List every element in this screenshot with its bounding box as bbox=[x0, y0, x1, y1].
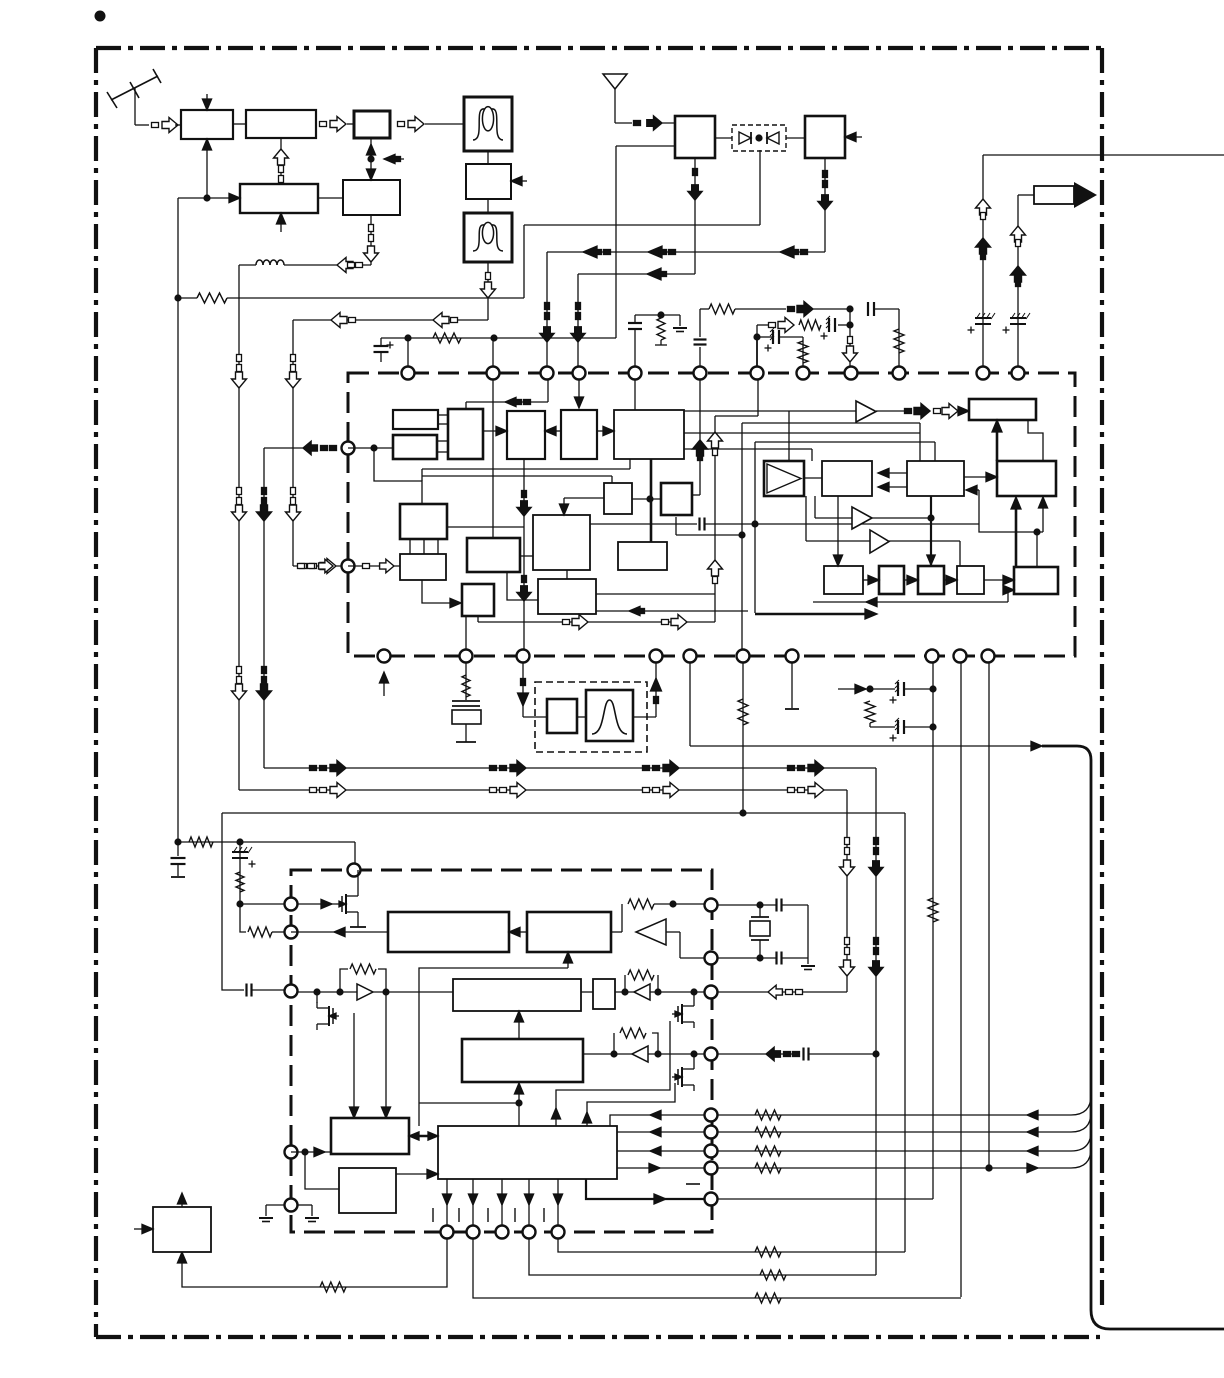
wire bbox=[239, 264, 256, 266]
wire bbox=[577, 716, 586, 718]
amp C bbox=[870, 530, 889, 553]
filter CF bbox=[586, 690, 633, 741]
block C1b bbox=[393, 435, 437, 459]
row y1151 from bus bbox=[718, 1131, 1091, 1156]
switch tick x473 bbox=[458, 1208, 460, 1222]
block E7 PS bbox=[339, 1168, 396, 1213]
pin left y904 bbox=[285, 898, 298, 911]
branch x240 bbox=[232, 842, 256, 908]
wire x419 bbox=[419, 952, 573, 1126]
marker bbox=[490, 766, 497, 771]
osc inverter amp bbox=[611, 899, 704, 958]
wire x961 column bbox=[960, 663, 962, 1297]
wire pin792 down bbox=[785, 663, 799, 709]
pin bottom x792 bbox=[786, 650, 799, 663]
wire x983 down bbox=[982, 155, 984, 366]
row y1298 bbox=[473, 1239, 961, 1303]
bold arrow D5-D1 bbox=[992, 420, 1002, 461]
signal marker left bbox=[331, 313, 347, 328]
signal marker left bbox=[337, 258, 363, 273]
wire x933 column bbox=[928, 663, 938, 1199]
marker bbox=[310, 766, 317, 771]
block D4 bbox=[907, 461, 964, 496]
marker bbox=[643, 766, 650, 771]
wire y524 cap line bbox=[590, 518, 979, 531]
wire pin743 down bbox=[738, 663, 748, 817]
marker bbox=[232, 684, 247, 700]
wire node374 to C8 bbox=[374, 448, 422, 504]
wire pin757 bbox=[756, 337, 758, 366]
signal marker into RF amp bbox=[152, 123, 159, 128]
pin top x1018 bbox=[1012, 367, 1025, 380]
bold line y614 bbox=[755, 609, 877, 619]
MOSFET Q2 bbox=[317, 992, 339, 1030]
branch to pin291-932 bbox=[240, 904, 284, 937]
wire D4 right loop bbox=[966, 485, 1048, 567]
pin top x983 bbox=[977, 367, 990, 380]
wire C5 to ampA bbox=[684, 410, 856, 412]
net x933 caps bbox=[838, 680, 937, 742]
block AM-FE bbox=[805, 116, 845, 158]
signal marker bbox=[320, 122, 327, 127]
wire x755 column bbox=[751, 442, 935, 613]
arrow E1 to pin932 bbox=[291, 927, 388, 936]
wires to E5 bbox=[349, 992, 390, 1118]
wire BPF2 down bbox=[487, 262, 489, 320]
wire C14 right bbox=[596, 593, 715, 595]
wires C1-C2 bbox=[437, 415, 448, 452]
pin right y992 bbox=[705, 986, 718, 999]
MOSFET Q4 bbox=[672, 1054, 694, 1091]
wire x355 to pin354 bbox=[354, 842, 356, 863]
diode D1 bbox=[739, 132, 751, 144]
arrows D4-D3 bbox=[878, 468, 907, 491]
wire x1018 down bbox=[1017, 195, 1019, 366]
arrow up from E6 bbox=[551, 1108, 560, 1119]
pin bottom x932 bbox=[926, 650, 939, 663]
pin bottom x529 bbox=[523, 1226, 536, 1239]
row y1115 from bus bbox=[718, 1095, 1091, 1120]
bus row y790 bbox=[239, 789, 847, 791]
amp A bbox=[856, 401, 876, 422]
wire pin448 to C1b bbox=[348, 444, 393, 451]
switch tick x558 bbox=[543, 1208, 545, 1222]
wire C8 right bbox=[447, 526, 524, 528]
block D10 bbox=[918, 566, 944, 594]
pin right y1054 bbox=[705, 1048, 718, 1061]
wires C8-C12 bbox=[410, 539, 438, 554]
block MIX bbox=[354, 111, 390, 138]
pin left y932 bbox=[285, 926, 298, 939]
wire FM-FE bottom bbox=[688, 158, 702, 274]
marker bbox=[788, 766, 795, 771]
drop x876 bbox=[869, 768, 883, 1275]
wire to pin291-904 bbox=[240, 903, 284, 905]
pin right y905 bbox=[705, 899, 718, 912]
arrow D10-D11 bbox=[944, 575, 957, 584]
wire D2 top bbox=[788, 411, 790, 461]
bullet list dot bbox=[95, 11, 106, 22]
block D5 bbox=[997, 461, 1056, 496]
output line x558 bbox=[553, 1179, 562, 1226]
cap C-381 bbox=[374, 338, 394, 362]
block E4b bbox=[593, 979, 615, 1009]
amp1 and feedback bbox=[298, 964, 453, 1000]
wire C6-C7 bbox=[632, 498, 661, 500]
wire ampB bbox=[815, 496, 935, 565]
pin top x700 bbox=[694, 367, 707, 380]
cap C-x178 end bbox=[171, 842, 186, 877]
antenna ANT1 bbox=[107, 69, 161, 125]
wire D2-D3 bbox=[804, 477, 822, 479]
wire to E7 bbox=[305, 1152, 339, 1189]
net y325 row bbox=[757, 309, 854, 340]
pin bottom x743 bbox=[737, 650, 750, 663]
bold arrow D12-D5 bbox=[1011, 497, 1021, 567]
filter BPF2 bbox=[464, 213, 512, 262]
pin bottom x988 bbox=[982, 650, 995, 663]
node on row1168 bbox=[985, 1164, 992, 1171]
ground at pin1205 bbox=[259, 1205, 319, 1222]
block C12 bbox=[400, 554, 446, 580]
wire pin566 to C12 bbox=[348, 559, 400, 573]
row pin1168 bbox=[617, 1163, 704, 1172]
wire bbox=[233, 123, 246, 125]
wire C9 to C14 bbox=[507, 572, 538, 600]
block C4 bbox=[561, 410, 597, 459]
marker open up bbox=[1011, 226, 1026, 247]
output line x502 bbox=[497, 1179, 506, 1226]
net pin700 top bbox=[694, 302, 905, 367]
wire y298 bbox=[178, 297, 197, 299]
double arrow E5-E6 bbox=[409, 1132, 438, 1140]
wire C3 to pin523 bbox=[517, 459, 531, 649]
pin bottom x960 bbox=[954, 650, 967, 663]
wire pin635 into C5 bbox=[634, 380, 636, 410]
arrow into C10 top bbox=[559, 498, 604, 515]
pin bottom x384 bbox=[378, 650, 391, 663]
cap network pin635 bbox=[628, 311, 687, 366]
wire into pin PLL-in bbox=[293, 565, 341, 567]
pin bottom x466 bbox=[460, 650, 473, 663]
pin right y1199 bbox=[705, 1193, 718, 1206]
wire bbox=[252, 989, 284, 991]
block SW-REG bbox=[153, 1207, 211, 1252]
ampA to D1 markers bbox=[876, 404, 969, 419]
MOSFET Q1 bbox=[298, 870, 366, 927]
row y1287 to block F bbox=[177, 1239, 447, 1292]
minus mark bbox=[686, 1183, 700, 1185]
row y1168 from bus bbox=[718, 1148, 1091, 1173]
outer dash-dot border bbox=[96, 48, 1102, 1337]
wire y225 bbox=[524, 224, 760, 226]
wire y469 row bbox=[422, 459, 630, 481]
net y337 row bbox=[753, 328, 808, 366]
marker x264 column bbox=[257, 448, 272, 768]
row y1275 bbox=[529, 1239, 876, 1280]
signal marker bbox=[634, 116, 663, 130]
switch tick x502 bbox=[487, 1208, 489, 1222]
pin bottom x690 bbox=[684, 650, 697, 663]
block C1a bbox=[393, 410, 438, 429]
pin bottom x656 bbox=[650, 650, 663, 663]
signal marker left bbox=[583, 246, 611, 258]
switch tick x529 bbox=[514, 1208, 516, 1222]
marker bbox=[310, 788, 317, 793]
block D3 bbox=[822, 461, 872, 496]
pin right y1168 bbox=[705, 1162, 718, 1175]
wire bbox=[425, 123, 464, 125]
wire pin493 bbox=[492, 338, 494, 538]
pin left y991 bbox=[285, 985, 298, 998]
arrow into IF-AMP right bbox=[511, 176, 527, 185]
bus curve right bbox=[1042, 746, 1224, 1329]
block E2 CLKGEN bbox=[527, 912, 611, 952]
block C8 bbox=[400, 504, 447, 539]
signal marker left bbox=[648, 246, 676, 258]
block FM-FE bbox=[675, 116, 715, 158]
pin right y1132 bbox=[705, 1126, 718, 1139]
wire y252 bbox=[547, 251, 825, 253]
block D11 bbox=[957, 566, 984, 594]
block D12 bbox=[1014, 567, 1058, 594]
wire C12-C13 bbox=[422, 580, 461, 608]
wire up to RF-AMP bbox=[202, 139, 211, 198]
amp B bbox=[852, 507, 872, 529]
block E4 DAC bbox=[453, 979, 581, 1011]
crystal X2 circuit bbox=[718, 899, 815, 970]
block E6 CONTROL bbox=[438, 1126, 617, 1179]
node A3-B2 bbox=[366, 138, 404, 180]
pin left y448 bbox=[342, 442, 355, 455]
wire y476 bbox=[422, 476, 612, 483]
block C3 bbox=[507, 411, 545, 459]
drop x847 bbox=[840, 790, 855, 992]
bus row y813 bbox=[222, 812, 905, 814]
block C11 bbox=[618, 542, 667, 570]
block C2 bbox=[448, 409, 483, 459]
wire C5-C11 bold bbox=[646, 459, 653, 542]
arrow D8-D9 bbox=[863, 575, 879, 584]
wire pin1199 to x933 bbox=[718, 1198, 933, 1200]
wire y274 bbox=[578, 268, 695, 280]
wire y449 to D3 bbox=[684, 449, 812, 461]
marker bbox=[788, 788, 795, 793]
cap C-x222 bbox=[245, 984, 247, 997]
marker bbox=[232, 372, 247, 388]
MOSFET Q3 bbox=[672, 992, 694, 1028]
wire x222 down bbox=[222, 813, 244, 990]
block C13 bbox=[462, 584, 494, 616]
switch tick x447 bbox=[432, 1208, 434, 1222]
block E5 IF-CNT bbox=[331, 1118, 409, 1154]
wire bbox=[523, 716, 547, 718]
amp3 and feedback bbox=[583, 1028, 704, 1062]
wire C10-C14 bbox=[566, 570, 568, 579]
block C6 bbox=[604, 483, 632, 514]
wire y535 bbox=[675, 517, 677, 535]
row y1252 bbox=[558, 1239, 905, 1257]
wire AM-FE bottom bbox=[818, 158, 832, 252]
marker filled up bbox=[976, 238, 991, 260]
wire bbox=[786, 137, 805, 139]
arrow D3-D8 bbox=[833, 496, 842, 566]
stub pin384 bbox=[379, 672, 388, 696]
bus row y768 bbox=[264, 767, 876, 769]
resistor R-y298 bbox=[197, 293, 227, 303]
stub SW-REG top bbox=[177, 1193, 186, 1207]
wire x524 up bbox=[523, 225, 525, 298]
cap C-x1018 bbox=[1010, 317, 1026, 319]
wire y320 to left bbox=[293, 319, 488, 321]
signal marker into C12 bbox=[298, 559, 334, 573]
arrow C4-C5 bbox=[597, 426, 614, 435]
dashed diode box bbox=[732, 125, 786, 151]
wire F1-Fmid bbox=[487, 151, 489, 164]
bottom IC dashed outline bbox=[291, 870, 712, 1232]
feedback line y611 bbox=[596, 606, 748, 615]
block E8 DAC2 bbox=[462, 1039, 583, 1082]
wire E6-E8 bbox=[419, 1083, 524, 1126]
pin right y958 bbox=[705, 952, 718, 965]
wire bbox=[658, 122, 675, 124]
pin top x493 bbox=[487, 367, 500, 380]
pin top x547 bbox=[541, 367, 554, 380]
block OSC2 bbox=[343, 180, 400, 215]
row pin1115 bbox=[610, 1110, 704, 1126]
wire D1-D5 right bbox=[1028, 420, 1043, 461]
wire y265 left bbox=[284, 264, 371, 266]
arrow into RF-AMP top bbox=[202, 94, 211, 110]
wire VCC exit right bbox=[983, 154, 1224, 156]
wire x239 down bbox=[238, 265, 240, 790]
output line x473 bbox=[468, 1179, 477, 1226]
wire pin408 up bbox=[407, 338, 409, 366]
wire bbox=[175, 124, 181, 126]
wire bbox=[633, 716, 656, 718]
pin top x579 bbox=[573, 367, 586, 380]
row pin1199 bold bbox=[586, 1179, 704, 1204]
wire TM1 left down bbox=[616, 145, 675, 147]
wire x578 to pin bbox=[571, 274, 585, 366]
block D8 bbox=[824, 566, 863, 594]
arrow D9-D10 bbox=[904, 575, 918, 584]
arrow C4-C3 bbox=[545, 426, 561, 435]
wire ampC bbox=[806, 496, 960, 566]
pin left y566 bbox=[342, 560, 355, 573]
marker filled up bbox=[1011, 266, 1026, 287]
stub into OSC1 bottom bbox=[276, 213, 285, 232]
block D1 bbox=[969, 399, 1036, 420]
wire OSC2 bottom bbox=[364, 215, 379, 265]
wire x293 down bbox=[292, 320, 294, 566]
wire x715 column bbox=[708, 380, 759, 622]
wire y402 marker line bbox=[466, 380, 548, 409]
wire x742 column bbox=[738, 423, 920, 649]
wire up to pin656 bbox=[651, 663, 662, 717]
wire pin700 into C7 bbox=[692, 380, 708, 495]
dashed ceramic filter box bbox=[535, 682, 647, 752]
gate line Q3 bbox=[556, 1021, 670, 1127]
signal marker bbox=[398, 122, 405, 127]
pin top x757 bbox=[751, 367, 764, 380]
marker open up bbox=[976, 199, 991, 220]
signal marker into pin448 bbox=[264, 441, 337, 455]
wire y842 node line bbox=[178, 837, 355, 847]
row pin1132 bbox=[617, 1127, 704, 1136]
marker bbox=[490, 788, 497, 793]
pin top x803 bbox=[797, 367, 810, 380]
gate line Q4 bbox=[587, 1083, 675, 1127]
block RF-AMP bbox=[181, 110, 233, 139]
signal marker bbox=[300, 564, 307, 569]
block OSC1 bbox=[240, 184, 318, 213]
block C5 bbox=[614, 410, 684, 459]
pin top x635 bbox=[629, 367, 642, 380]
wire TM1-diodes bbox=[715, 137, 732, 139]
output line x447 bbox=[442, 1179, 451, 1226]
pin top x408 bbox=[402, 367, 415, 380]
wire E8-E4 bbox=[514, 1011, 523, 1039]
row y1132 from bus bbox=[718, 1112, 1091, 1137]
drop x905 bbox=[904, 813, 906, 1252]
pin top x851 bbox=[845, 367, 858, 380]
arrow into AM-FE right bbox=[845, 132, 862, 141]
block D2 expander bbox=[764, 461, 804, 496]
wire pin1152 to E5 bbox=[291, 1147, 331, 1156]
marker on BPF2 output bbox=[481, 273, 496, 299]
marker bbox=[643, 788, 650, 793]
marker bbox=[286, 372, 301, 388]
wire pin523 down bbox=[518, 663, 529, 717]
arrow D11-D12 bbox=[984, 575, 1014, 584]
block C7 bbox=[661, 483, 692, 515]
arrow C2-C3 bbox=[483, 426, 507, 435]
pin bottom x523 bbox=[517, 650, 530, 663]
arrow D4-D5 bbox=[964, 472, 997, 481]
flag connector B+ bbox=[1018, 182, 1097, 208]
wire cap to pin1054 bbox=[718, 1047, 876, 1061]
pin right y1115 bbox=[705, 1109, 718, 1122]
resistor R-y338 bbox=[433, 333, 461, 343]
connector RF-AGC to OSC1 bbox=[274, 138, 289, 184]
marker bbox=[286, 505, 301, 521]
amp2 and feedback bbox=[581, 970, 704, 1000]
main IC dashed outline bbox=[348, 373, 1075, 656]
signal marker left bbox=[780, 246, 808, 258]
pin left y1205 bbox=[285, 1199, 298, 1212]
wire x547 to pin bbox=[540, 252, 554, 366]
feedback line y602 bbox=[813, 585, 1014, 606]
wire pin851 down bbox=[843, 325, 858, 366]
block C14 bbox=[538, 579, 596, 614]
arrow E2-E1 bbox=[509, 927, 527, 936]
marker bbox=[232, 505, 247, 521]
wire pin690 to bus bbox=[690, 663, 1042, 751]
filter BPF1 bbox=[464, 97, 512, 151]
pin bottom x502 bbox=[496, 1226, 509, 1239]
arrow into SW-REG bbox=[134, 1224, 153, 1233]
block C9 bbox=[467, 538, 520, 572]
wire x178 column bbox=[174, 198, 181, 846]
pin bottom x558 bbox=[552, 1226, 565, 1239]
wire x989 column bbox=[985, 663, 992, 1172]
arrow up from E6 bbox=[582, 1112, 591, 1123]
pin top x899 bbox=[893, 367, 906, 380]
block C10 bbox=[533, 515, 590, 570]
inductor L1 bbox=[256, 260, 263, 265]
block RF-AGC bbox=[246, 110, 316, 138]
